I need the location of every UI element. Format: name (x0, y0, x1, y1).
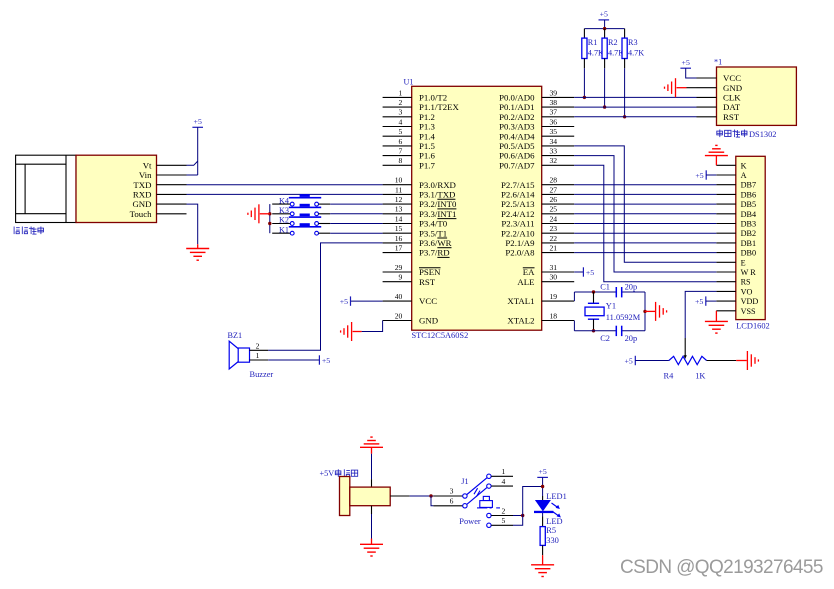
svg-text:CLK: CLK (723, 93, 741, 103)
svg-text:30: 30 (550, 273, 558, 282)
svg-text:Touch: Touch (130, 209, 152, 219)
resistor R3 bottom pin (624, 59, 626, 69)
svg-text:P2.5/A13: P2.5/A13 (501, 199, 535, 209)
ground (R4) sideways earth symbol (747, 351, 758, 370)
wire socket to J1 pin 3 (410, 495, 434, 497)
U1 pin 8 (P1.7) stub (383, 164, 412, 166)
svg-text:1: 1 (256, 351, 260, 360)
svg-text:P1.0/T2: P1.0/T2 (419, 93, 447, 103)
fingerprint pin GND stub (157, 203, 187, 205)
U1 pin 15 name P3.5/T1 (419, 228, 447, 238)
ground (LCD VSS) red stem (715, 311, 717, 322)
svg-text:K4: K4 (279, 196, 289, 205)
svg-text:P2.3/A11: P2.3/A11 (501, 219, 534, 229)
wire pullup top rail (584, 28, 624, 30)
DS1302 pin GND stub (697, 87, 717, 89)
op-amp U1 body (MCU STC12C5A60S2) (412, 86, 542, 330)
svg-text:18: 18 (550, 311, 558, 320)
junction oscillator ground (643, 310, 646, 313)
wire U1 pin 22 to LCD DB1 (574, 242, 716, 244)
svg-text:Power: Power (459, 517, 481, 526)
svg-text:VO: VO (741, 287, 753, 296)
pushbutton K1 (272, 223, 330, 235)
ground (key bus) red link (260, 213, 270, 215)
wire K2 to U1 (330, 223, 382, 225)
wire +5 stem to rail (604, 20, 606, 29)
U1 pin 13 (P3.3/INT1) stub (383, 213, 412, 215)
watermark CSDN (620, 557, 823, 579)
svg-text:DS1302: DS1302 (749, 130, 776, 139)
svg-text:DB5: DB5 (741, 200, 756, 209)
svg-text:34: 34 (550, 137, 558, 146)
svg-text:Y1: Y1 (606, 301, 616, 310)
svg-text:22: 22 (550, 234, 558, 243)
svg-text:W R: W R (741, 268, 757, 277)
ground (power socket bottom) earth symbol (360, 544, 383, 556)
U1 pin 5 (P1.4) stub (383, 135, 412, 137)
resistor R1 body (582, 38, 587, 58)
svg-text:K: K (741, 161, 747, 170)
svg-text:36: 36 (550, 117, 558, 126)
svg-text:12: 12 (395, 195, 403, 204)
fingerprint sensor drawing (connector graphic) (16, 155, 76, 222)
svg-text:EA: EA (523, 267, 535, 277)
power +5 symbol (fingerprint supply) (192, 117, 203, 127)
svg-text:P2.7/A15: P2.7/A15 (501, 180, 535, 190)
svg-text:P0.6/AD6: P0.6/AD6 (499, 151, 535, 161)
DS1302 pin CLK stub (697, 96, 717, 98)
svg-text:2: 2 (399, 98, 403, 107)
svg-text:37: 37 (550, 108, 558, 117)
wire K1 to U1 (330, 232, 382, 234)
LCD pin VDD stub (716, 300, 736, 302)
svg-text:DB6: DB6 (741, 190, 756, 199)
ground (U1 GND) red link (353, 331, 362, 333)
ground (LCD VSS) earth symbol (705, 321, 728, 333)
wire fingerprint RXD to U1 pin 11 (187, 193, 383, 195)
switch J1 pin 1 contact (487, 474, 491, 478)
svg-text:33: 33 (550, 147, 558, 156)
power +5 (LCD VDD) (695, 296, 706, 306)
svg-text:R2: R2 (608, 38, 618, 47)
wire K3 to U1 (330, 213, 382, 215)
wire Vin (187, 174, 198, 176)
svg-text:6: 6 (450, 496, 454, 505)
ground (key bus) sideways earth symbol (248, 204, 259, 223)
svg-text:*1: *1 (714, 58, 722, 67)
U1 pin 33 (P0.6/AD6) stub (542, 155, 575, 157)
svg-text:R5: R5 (546, 526, 556, 535)
ground (power socket top) inverted earth symbol (360, 437, 383, 447)
U1 pin 1 (P1.0/T2) stub (383, 96, 412, 98)
power socket label +5V电源座 (320, 469, 358, 478)
U1 pin 31 name EA (523, 267, 535, 277)
LCD pin RS stub (716, 281, 736, 283)
svg-text:+5: +5 (695, 171, 703, 180)
U1 pin 40 (VCC) stub (383, 300, 412, 302)
resistor R1 top pin (583, 29, 585, 38)
svg-text:P3.4/T0: P3.4/T0 (419, 219, 448, 229)
junction key bus at K3 row (268, 212, 271, 215)
resistor R2 top pin (604, 29, 606, 38)
svg-text:15: 15 (395, 224, 403, 233)
fingerprint pin RXD stub (157, 193, 187, 195)
switch J1 pin 2 stub (491, 515, 513, 517)
svg-text:19: 19 (550, 292, 558, 301)
svg-text:4.7K: 4.7K (628, 49, 644, 58)
resistor R3 top pin (624, 29, 626, 38)
wire U1 pin 39 to DS1302 CLK (574, 96, 696, 98)
U1 pin 7 (P1.6) stub (383, 155, 412, 157)
svg-text:P0.0/AD0: P0.0/AD0 (499, 93, 535, 103)
U1 pin 25 (P2.4/A12) stub (542, 213, 575, 215)
svg-text:P3.1/TXD: P3.1/TXD (419, 190, 455, 200)
power +5 symbol (DS1302 VCC) (680, 58, 691, 68)
svg-text:4: 4 (502, 477, 506, 486)
svg-text:+5: +5 (194, 117, 202, 126)
svg-text:+5: +5 (600, 10, 608, 19)
wire U1 pin 26 to LCD DB5 (574, 203, 716, 205)
wire U1 EA to +5 (574, 271, 583, 273)
crystal Y1 top pin (593, 292, 595, 303)
U1 pin 16 (P3.6/WR) stub (383, 242, 412, 244)
crystal Y1 symbol (585, 303, 604, 319)
U1 pin 30 (ALE) stub (542, 281, 575, 283)
svg-text:P2.1/A9: P2.1/A9 (505, 238, 535, 248)
svg-text:29: 29 (395, 263, 403, 272)
svg-text:P0.1/AD1: P0.1/AD1 (499, 102, 534, 112)
svg-text:25: 25 (550, 205, 558, 214)
U1 pin 39 (P0.0/AD0) stub (542, 96, 575, 98)
fingerprint pin Vt stub (157, 164, 187, 166)
svg-text:+5: +5 (695, 297, 703, 306)
svg-text:32: 32 (550, 156, 558, 165)
U1 pin 11 (P3.1/TXD) stub (383, 193, 412, 195)
power +5 (LCD A) (695, 170, 706, 180)
switch J1 pin 3 stub (433, 495, 462, 497)
U1 pin 13 name P3.3/INT1 (419, 209, 456, 219)
U1 pin 38 (P0.1/AD1) stub (542, 106, 575, 108)
U1 pin 12 name P3.2/INT0 (419, 199, 457, 209)
svg-text:9: 9 (399, 273, 403, 282)
svg-text:+5: +5 (340, 297, 348, 306)
ground (fingerprint GND) stem (197, 244, 199, 248)
svg-text:P2.6/A14: P2.6/A14 (501, 190, 535, 200)
U1 pin 28 (P2.7/A15) stub (542, 184, 575, 186)
wire Vt to +5 stem (with 45-degree jog) (187, 161, 198, 165)
U1 pin 29 name PSEN (419, 267, 441, 277)
svg-text:VDD: VDD (741, 297, 759, 306)
wire U1 GND down to ground (362, 321, 383, 332)
wire jog down to J1 pin 6 (431, 496, 433, 506)
U1 pin 32 (P0.7/AD7) stub (542, 164, 575, 166)
junction key bus at K2 row (268, 222, 271, 225)
svg-text:8: 8 (399, 156, 403, 165)
power +5 (buzzer) (319, 355, 330, 365)
U1 pin 31 (EA) stub (542, 271, 575, 273)
wire U1 pin 32 to LCD RS (574, 165, 716, 281)
svg-text:P2.4/A12: P2.4/A12 (501, 209, 534, 219)
LCD pin K stub (716, 164, 736, 166)
switch J1 pin 4 contact (487, 484, 491, 488)
svg-text:14: 14 (395, 214, 403, 223)
wire +5 to LED anode (542, 477, 544, 500)
svg-text:P1.4: P1.4 (419, 131, 435, 141)
resistor R5 bottom pin (542, 545, 544, 555)
U1 pin 21 (P2.0/A8) stub (542, 252, 575, 254)
junction LED branch (521, 514, 524, 517)
buzzer BZ1 symbol (229, 341, 249, 369)
LCD pin DB7 stub (716, 184, 736, 186)
svg-text:K3: K3 (279, 206, 289, 215)
wire J1 pin 2 to LED branch (513, 515, 523, 517)
svg-text:GND: GND (419, 316, 438, 326)
U1 pin 24 (P2.3/A11) stub (542, 223, 575, 225)
wire XTAL2 down to oscillator bottom rail (573, 321, 575, 331)
svg-text:P3.6/WR: P3.6/WR (419, 238, 452, 248)
capacitor C2 plates (616, 326, 621, 336)
svg-text:+5: +5 (322, 356, 330, 365)
wire K4 to U1 (330, 203, 382, 205)
ground (R5) earth symbol (531, 565, 554, 577)
svg-text:P2.0/A8: P2.0/A8 (505, 248, 535, 258)
DS1302 pin DAT stub (697, 106, 717, 108)
svg-text:35: 35 (550, 127, 558, 136)
LCD pin DB5 stub (716, 203, 736, 205)
svg-text:RS: RS (741, 278, 751, 287)
switch J1 pin 1 stub (491, 475, 513, 477)
U1 pin 36 (P0.3/AD3) stub (542, 126, 575, 128)
wire R4 right pin (707, 360, 737, 362)
wire R2 to P0 line (604, 68, 606, 107)
svg-text:P3.3/INT1: P3.3/INT1 (419, 209, 456, 219)
U1 pin 15 (P3.5/T1) stub (383, 232, 412, 234)
LCD pin DB0 stub (716, 252, 736, 254)
U1 pin 27 (P2.6/A14) stub (542, 193, 575, 195)
svg-text:P0.5/AD5: P0.5/AD5 (499, 141, 535, 151)
svg-text:+5: +5 (586, 268, 594, 277)
switch J1 pin 2 contact (487, 513, 491, 517)
wire U1 pin 28 to LCD DB7 (574, 184, 716, 186)
U1 pin 29 (PSEN) stub (383, 271, 412, 273)
svg-text:13: 13 (395, 205, 403, 214)
svg-text:XTAL1: XTAL1 (507, 296, 534, 306)
svg-text:R3: R3 (628, 38, 638, 47)
junction crystal top (592, 290, 595, 293)
LCD pin DB6 stub (716, 193, 736, 195)
junction R3 at P0 line (623, 115, 626, 118)
U1 pin 34 (P0.5/AD5) stub (542, 145, 575, 147)
DS1302 module body (717, 67, 797, 125)
wire U1 VCC to +5 (351, 300, 383, 302)
power socket CON1 body (340, 477, 391, 516)
ground (DS1302 GND) red link (677, 87, 687, 89)
capacitor C1 plates (616, 287, 621, 297)
resistor R3 body (622, 38, 627, 58)
svg-text:LED: LED (546, 517, 562, 526)
svg-text:+5: +5 (682, 58, 690, 67)
power socket right pin (390, 495, 409, 497)
svg-text:DB3: DB3 (741, 220, 756, 229)
svg-text:GND: GND (132, 199, 151, 209)
wire U1 pin 24 to LCD DB3 (574, 223, 716, 225)
pushbutton K4 (272, 194, 330, 206)
U1 pin 20 (GND) stub (383, 320, 412, 322)
wire oscillator bottom rail (574, 330, 645, 332)
svg-text:11.0592M: 11.0592M (606, 313, 641, 322)
fingerprint pin TXD stub (157, 184, 187, 186)
svg-text:3: 3 (450, 487, 454, 496)
switch J1 linkage (474, 488, 480, 496)
U1 pin 23 (P2.2/A10) stub (542, 232, 575, 234)
svg-text:27: 27 (550, 185, 558, 194)
svg-text:Vin: Vin (139, 170, 152, 180)
svg-text:J1: J1 (461, 477, 468, 486)
wire XTAL1 up to oscillator top rail (573, 292, 575, 301)
svg-text:K1: K1 (279, 225, 289, 234)
U1 pin 6 (P1.5) stub (383, 145, 412, 147)
wire R3 to P0 line (624, 68, 626, 117)
DS1302 label 时钟模块DS1302 (717, 130, 777, 140)
wire R1 to P0 line (583, 68, 585, 97)
LCD pin DB2 stub (716, 232, 736, 234)
svg-text:20: 20 (395, 311, 403, 320)
svg-text:DB7: DB7 (741, 181, 756, 190)
switch J1 pin 6 contact (463, 504, 467, 508)
wire U1 pin 25 to LCD DB4 (574, 213, 716, 215)
svg-text:P3.2/INT0: P3.2/INT0 (419, 199, 457, 209)
svg-text:P1.3: P1.3 (419, 122, 435, 132)
U1 pin 35 (P0.4/AD4) stub (542, 135, 575, 137)
svg-text:ALE: ALE (517, 277, 534, 287)
svg-text:3: 3 (399, 108, 403, 117)
power +5 symbol (LED supply) (537, 467, 548, 477)
switch J1 pushbutton icon (477, 496, 500, 508)
svg-text:39: 39 (550, 88, 558, 97)
wire +5 to R4 left (635, 360, 669, 362)
svg-text:4: 4 (399, 117, 403, 126)
ground (R5) red stem (542, 555, 544, 565)
U1 pin 9 (RST) stub (383, 281, 412, 283)
svg-text:DB4: DB4 (741, 210, 756, 219)
switch J1 arm pole B (467, 488, 487, 505)
svg-text:23: 23 (550, 224, 558, 233)
U1 pin 19 (XTAL1) stub (542, 300, 575, 302)
power +5 (R4) (625, 356, 636, 366)
wire U1 pin 27 to LCD DB6 (574, 193, 716, 195)
U1 pin 2 (P1.1/T2EX) stub (383, 106, 412, 108)
svg-text:7: 7 (399, 147, 403, 156)
ground (fingerprint GND) earth symbol (186, 249, 209, 261)
svg-text:6: 6 (399, 137, 403, 146)
svg-text:P1.6: P1.6 (419, 151, 435, 161)
ground (R4) red link (736, 360, 747, 362)
svg-text:R1: R1 (588, 38, 598, 47)
svg-text:P1.2: P1.2 (419, 112, 435, 122)
svg-text:RXD: RXD (133, 190, 152, 200)
DS1302 pin RST stub (697, 116, 717, 118)
svg-text:26: 26 (550, 195, 558, 204)
svg-text:20p: 20p (625, 283, 638, 292)
svg-text:17: 17 (395, 244, 403, 253)
svg-text:XTAL2: XTAL2 (507, 316, 534, 326)
svg-text:16: 16 (395, 234, 403, 243)
svg-text:GND: GND (723, 83, 742, 93)
U1 pin 26 (P2.5/A13) stub (542, 203, 575, 205)
DS1302 pin VCC stub (697, 77, 717, 79)
svg-text:+5: +5 (625, 356, 633, 365)
ground (LCD K) inverted earth symbol (705, 145, 728, 155)
junction R1 at P0 line (583, 96, 586, 99)
svg-text:LED1: LED1 (546, 492, 566, 501)
svg-text:P0.2/AD2: P0.2/AD2 (499, 112, 534, 122)
wire U1 pin 34 to LCD E (574, 146, 716, 262)
svg-text:11: 11 (395, 185, 403, 194)
fingerprint module label 指纹模块 (14, 227, 43, 235)
wire buzzer pin 2 to U1 pin 16 (268, 243, 382, 350)
pushbutton K2 (272, 214, 330, 226)
power +5 symbol (pullups) (599, 10, 610, 20)
svg-text:1: 1 (399, 88, 403, 97)
wire fingerprint TXD to U1 pin 10 (187, 184, 383, 186)
ground (oscillator) red link (645, 310, 655, 312)
power +5 (EA) (583, 267, 594, 277)
junction R2 at P0 line (603, 105, 606, 108)
svg-text:VCC: VCC (723, 73, 741, 83)
svg-text:31: 31 (550, 263, 558, 272)
svg-text:21: 21 (550, 244, 558, 253)
svg-text:P3.5/T1: P3.5/T1 (419, 228, 447, 238)
wire LCD VO to R4 wiper (685, 291, 716, 338)
ground (U1 GND) sideways earth symbol (341, 322, 352, 341)
LCD pin A stub (716, 174, 736, 176)
crystal Y1 bottom pin (593, 319, 595, 331)
svg-text:RST: RST (419, 277, 436, 287)
LCD pin DB4 stub (716, 213, 736, 215)
svg-text:+5: +5 (538, 467, 546, 476)
svg-text:C1: C1 (600, 283, 610, 292)
svg-text:P1.5: P1.5 (419, 141, 435, 151)
switch J1 pin 3 contact (463, 494, 467, 498)
wire U1 pin 37 to DS1302 RST (574, 116, 696, 118)
svg-text:38: 38 (550, 98, 558, 107)
wire LED cathode to R5 (542, 513, 544, 527)
svg-text:24: 24 (550, 214, 558, 223)
svg-text:+5V: +5V (320, 469, 335, 478)
svg-text:2: 2 (502, 506, 506, 515)
ground (DS1302 GND) sideways earth symbol (665, 78, 676, 97)
svg-text:330: 330 (546, 536, 559, 545)
svg-text:20p: 20p (625, 334, 638, 343)
ground (DS1302 GND) link (687, 87, 697, 89)
svg-text:P0.4/AD4: P0.4/AD4 (499, 131, 535, 141)
LCD pin DB3 stub (716, 223, 736, 225)
U1 pin 12 (P3.2/INT0) stub (383, 203, 412, 205)
ground (LCD K) red stem (715, 156, 717, 166)
wire +5 to LCD A (706, 174, 716, 176)
wire +5 to DS1302 VCC (686, 68, 697, 78)
svg-text:LCD1602: LCD1602 (736, 322, 770, 331)
U1 pin 18 (XTAL2) stub (542, 320, 575, 322)
pushbutton K3 (272, 204, 330, 216)
svg-text:1: 1 (502, 467, 506, 476)
potentiometer R4 zigzag element (669, 356, 707, 364)
svg-text:E: E (741, 258, 746, 267)
LCD pin DB1 stub (716, 242, 736, 244)
U1 pin 10 (P3.0/RXD) stub (383, 184, 412, 186)
svg-text:P3.0/RXD: P3.0/RXD (419, 180, 456, 190)
LCD pin VSS stub (716, 310, 736, 312)
